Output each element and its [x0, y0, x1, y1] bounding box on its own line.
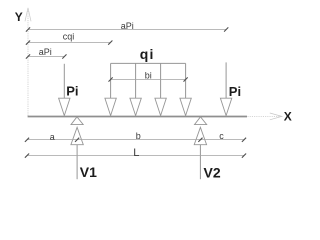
svg-text:V2: V2 [204, 164, 221, 180]
svg-text:aPi: aPi [39, 47, 52, 57]
force Pi left [59, 64, 70, 116]
svg-text:L: L [133, 147, 139, 159]
dimension L [25, 154, 246, 158]
svg-text:qi: qi [140, 46, 155, 62]
Y axis [25, 8, 31, 116]
distributed load qi (top line and 4 arrows) [105, 63, 191, 115]
svg-text:aPi: aPi [121, 21, 134, 31]
svg-text:bi: bi [145, 71, 152, 81]
X axis arrow [248, 113, 282, 120]
dimension line a-b-c [25, 138, 246, 142]
svg-text:V1: V1 [80, 164, 97, 180]
svg-text:Y: Y [15, 10, 23, 24]
svg-text:cqi: cqi [63, 31, 75, 41]
reaction V2 [194, 127, 206, 179]
force Pi right [220, 62, 231, 115]
dimension cqi [26, 41, 113, 45]
svg-text:Pi: Pi [66, 84, 78, 99]
svg-text:X: X [284, 109, 292, 123]
support A (left pin) [71, 117, 83, 125]
dimension aPi (top, to right force) [26, 27, 228, 31]
support B (right pin) [195, 117, 207, 125]
svg-text:Pi: Pi [229, 84, 241, 99]
beam (X axis solid line) [28, 116, 247, 118]
dimension bi [109, 77, 188, 81]
reaction V1 [71, 127, 83, 179]
dimension aPi (left force) [26, 54, 67, 58]
svg-text:a: a [50, 132, 55, 142]
svg-text:c: c [219, 131, 224, 141]
svg-text:b: b [136, 131, 141, 141]
